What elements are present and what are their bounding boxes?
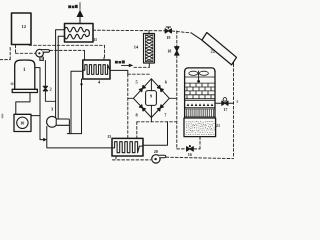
svg-text:12: 12	[22, 24, 27, 29]
svg-text:15: 15	[107, 134, 111, 139]
svg-text:18: 18	[167, 49, 171, 54]
svg-text:11: 11	[93, 37, 97, 42]
svg-text:16: 16	[188, 152, 192, 157]
svg-text:13: 13	[40, 57, 44, 61]
svg-text:2: 2	[49, 86, 51, 91]
svg-text:20: 20	[154, 149, 158, 154]
svg-text:22: 22	[211, 48, 215, 53]
svg-text:10: 10	[20, 121, 24, 126]
svg-text:21: 21	[216, 123, 220, 128]
svg-text:17: 17	[223, 107, 227, 112]
svg-text:19: 19	[166, 35, 170, 40]
